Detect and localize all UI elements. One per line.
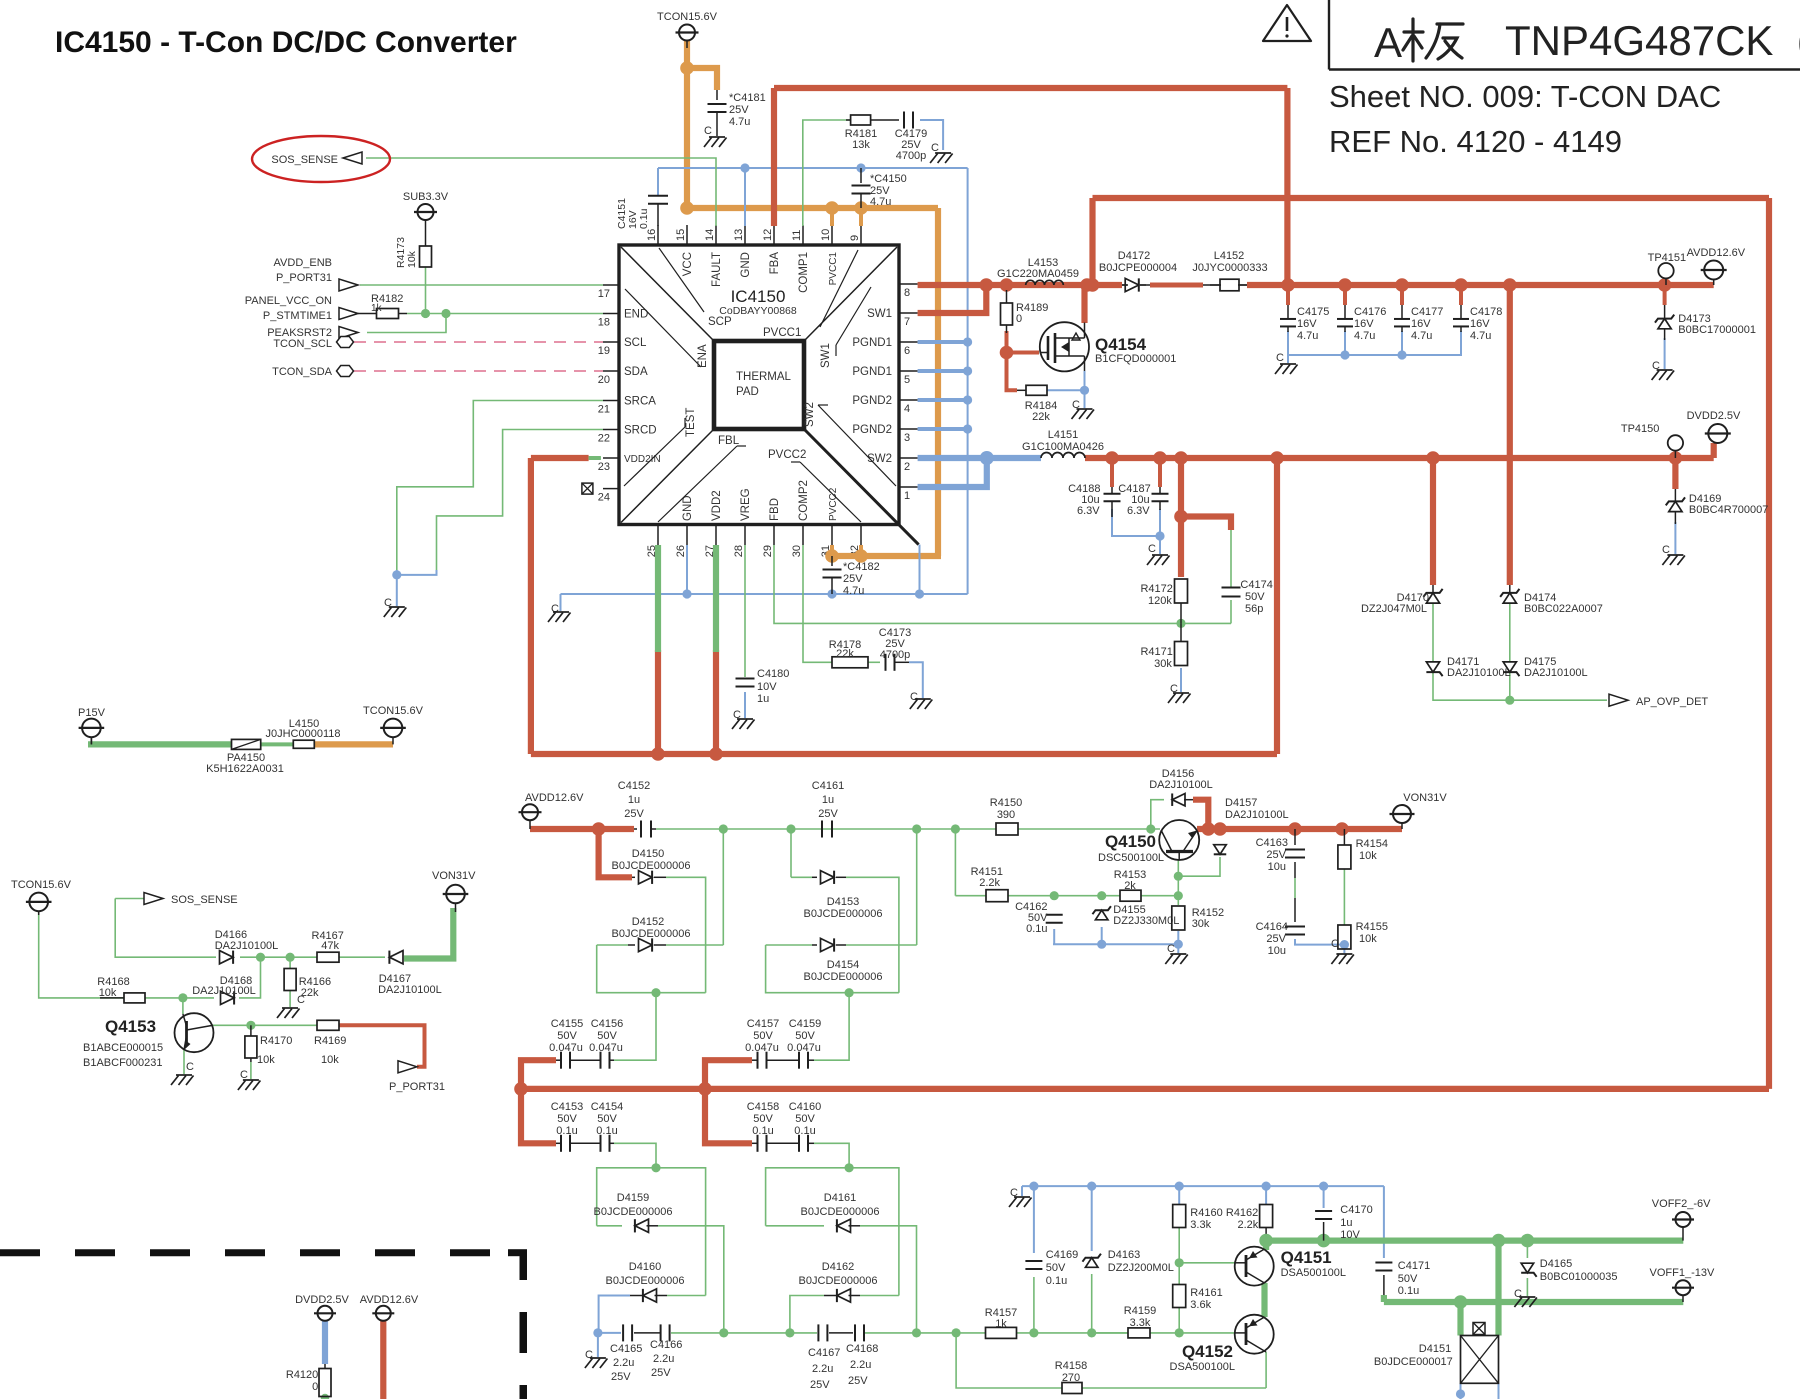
capacitor C4153	[560, 1135, 562, 1152]
svg-text:D4150: D4150	[632, 848, 664, 860]
svg-text:C4178: C4178	[1470, 306, 1502, 318]
svg-text:AVDD_ENB: AVDD_ENB	[274, 257, 332, 269]
svg-text:9: 9	[849, 235, 861, 241]
wire green pin27 VDD segment	[713, 545, 719, 652]
node green D4150 box bottom	[651, 988, 660, 997]
wire green SOS_SENSE to FAULT pin14	[366, 158, 716, 226]
wire green D4175 drop	[1509, 672, 1511, 700]
wire green Q4153 emitter to gnd	[183, 1050, 185, 1074]
svg-text:B0JDCE000017: B0JDCE000017	[1374, 1356, 1453, 1368]
svg-text:22k: 22k	[836, 648, 854, 660]
wire blue R4171 gnd tail	[1180, 668, 1182, 692]
svg-text:1k: 1k	[995, 1318, 1007, 1330]
wire green pump cap row	[598, 1332, 621, 1334]
svg-text:P_PORT31: P_PORT31	[276, 272, 332, 284]
node orange pin15	[680, 201, 694, 215]
resistor R4160	[1173, 1205, 1186, 1228]
wire green D4174 to D4175	[1509, 603, 1511, 662]
svg-text:18: 18	[598, 317, 610, 329]
wire blue gnd right vertical	[967, 168, 969, 594]
zener diode D4163	[1085, 1258, 1097, 1268]
wire orange TCON15.6V vertical from terminal	[684, 41, 690, 208]
wire blue C4171 drop	[1383, 1186, 1385, 1258]
dashed sheet border horizontal	[0, 1249, 497, 1256]
wire red SW1 pin7 jog	[918, 285, 987, 313]
node blue SW2	[980, 451, 994, 465]
node green R4173 junction	[421, 309, 430, 318]
wire orange PVCC vertical right of IC	[935, 208, 941, 556]
wire blue gnd bottom horizontal under IC	[561, 593, 968, 595]
wire red D4172 highlight segments	[1150, 283, 1203, 288]
IC corner diagonal bottom-right to GND tie	[804, 429, 919, 545]
node green D4165 top	[1521, 1234, 1535, 1248]
node green D4151 branch	[1454, 1295, 1468, 1309]
IC SCP leader and label	[659, 248, 704, 312]
IC bottom pin stubs	[657, 525, 659, 546]
wire red pump row1 feed	[521, 1060, 556, 1089]
wire blue C4164 gnd elbow	[1295, 939, 1344, 945]
svg-text:D4160: D4160	[629, 1261, 661, 1273]
svg-text:Q4150: Q4150	[1105, 832, 1156, 851]
node blue D4155 bottom	[1097, 940, 1106, 949]
IC top pin stubs	[657, 225, 659, 245]
node green D4154 riser	[912, 824, 921, 833]
wire red D4174 drop from AVDD rail	[1507, 285, 1513, 585]
svg-text:21: 21	[598, 404, 610, 416]
wire green VREG pin28 to C4180	[744, 545, 746, 677]
wire C4171 bottom lead	[1383, 1275, 1385, 1295]
node blue C4169 top	[1029, 1182, 1038, 1191]
wire blue C4162 gnd row	[1053, 943, 1178, 945]
svg-text:C4152: C4152	[618, 780, 650, 792]
svg-text:TNP4G487CK (9: TNP4G487CK (9	[1505, 17, 1800, 64]
wire red D4156 cathode to VON	[1193, 800, 1208, 829]
node green R4153 node	[1174, 891, 1183, 900]
svg-text:D4161: D4161	[824, 1192, 856, 1204]
node red R4172 C4174 junction	[1174, 510, 1188, 524]
diode D4175	[1503, 662, 1516, 672]
diode D4154	[812, 944, 817, 946]
svg-text:C4176: C4176	[1354, 306, 1386, 318]
node red C4177	[1395, 278, 1409, 292]
node blue C4176 tail	[1344, 331, 1346, 355]
node blue pin26 gnd	[682, 589, 691, 598]
testpoint TP4151	[1658, 263, 1673, 278]
svg-text:390: 390	[997, 809, 1015, 821]
svg-text:R4155: R4155	[1356, 921, 1388, 933]
svg-text:R4161: R4161	[1190, 1287, 1222, 1299]
diode D4160	[643, 1289, 657, 1302]
svg-text:D4157: D4157	[1225, 797, 1257, 809]
svg-text:D4165: D4165	[1540, 1258, 1572, 1270]
node orange pin9 stub	[854, 201, 868, 215]
node red C4175	[1281, 278, 1295, 292]
transistor Q4153 NPN	[175, 1013, 214, 1052]
svg-text:0.1u: 0.1u	[1398, 1285, 1419, 1297]
svg-text:13: 13	[733, 229, 745, 241]
wire green SOS_SENSE branch	[115, 898, 163, 900]
wire green P_STMTIME1 node to pin18	[407, 313, 603, 315]
diode D4152	[628, 944, 635, 946]
svg-text:0.1u: 0.1u	[752, 1125, 773, 1137]
wire green D4152 cathode lead	[666, 944, 723, 946]
svg-text:10k: 10k	[1359, 850, 1377, 862]
svg-text:6.3V: 6.3V	[1077, 505, 1100, 517]
svg-text:G1C100MA0426: G1C100MA0426	[1022, 441, 1104, 453]
node red feedback riser	[1086, 278, 1100, 292]
svg-text:TCON_SCL: TCON_SCL	[273, 338, 332, 350]
wire green D4162 anode lead	[860, 1295, 899, 1297]
wire orange branch to C4181	[687, 68, 717, 90]
IC PVCC2 leader and label (pin 32)	[800, 462, 861, 522]
svg-text:SW1: SW1	[867, 308, 892, 320]
wire green R4158 to Q4152 emitter	[1082, 1387, 1266, 1389]
capacitor C4150	[860, 168, 862, 183]
svg-text:COMP1: COMP1	[798, 252, 810, 293]
svg-text:VREG: VREG	[740, 488, 752, 521]
node blue C4150 top	[856, 163, 865, 172]
svg-text:C: C	[1276, 352, 1284, 364]
wire blue DVDD2.5V stub	[322, 1321, 328, 1364]
svg-text:C: C	[704, 125, 712, 137]
svg-text:PANEL_VCC_ON: PANEL_VCC_ON	[245, 295, 332, 307]
wire blue SW2 pin2 thick	[918, 455, 987, 461]
node red AVDD pump branch	[592, 822, 606, 836]
svg-text:2.2u: 2.2u	[653, 1353, 674, 1365]
wire green D4159 cathode lead	[597, 1225, 622, 1227]
node red pump rail right branch	[698, 1082, 712, 1096]
svg-text:C4170: C4170	[1340, 1204, 1372, 1216]
wire green R4159 leads	[1092, 1332, 1128, 1334]
wire orange PVCC2 horizontal at bottom	[832, 553, 941, 559]
capacitor C4173	[885, 654, 887, 671]
diode D4159	[635, 1219, 649, 1232]
svg-text:1k: 1k	[371, 303, 383, 314]
svg-text:VON31V: VON31V	[1403, 792, 1447, 804]
node green C4162 top	[1050, 891, 1059, 900]
capacitor C4164	[1285, 926, 1305, 928]
inductor L4152 bead	[1210, 284, 1220, 286]
svg-text:10u: 10u	[1268, 861, 1286, 873]
svg-text:C4166: C4166	[650, 1339, 682, 1351]
wire green COMP2 pin30 to R4178	[803, 545, 832, 662]
node orange junction at C4181 branch	[680, 61, 694, 75]
svg-text:15: 15	[675, 229, 687, 241]
wire green D4150 D4152 box	[666, 877, 706, 992]
node red pin25 tap	[651, 747, 665, 761]
resistor R4157	[986, 1327, 1017, 1338]
svg-text:DA2J10100L: DA2J10100L	[1524, 667, 1588, 679]
diode D4157	[1214, 845, 1226, 855]
diode D4166	[220, 951, 234, 964]
node green Q4150 collector	[1174, 872, 1183, 881]
svg-text:C4163: C4163	[1256, 837, 1288, 849]
svg-text:FBD: FBD	[769, 498, 781, 521]
node blue C4177 tail	[1401, 331, 1403, 355]
resistor R4171	[1180, 623, 1182, 642]
svg-text:12: 12	[762, 229, 774, 241]
node red VON emitter	[1202, 822, 1216, 836]
wire red VON31V row	[1197, 826, 1402, 832]
svg-text:END: END	[624, 309, 648, 321]
resistor R4151	[986, 890, 1008, 902]
svg-text:REF No. 4120 - 4149: REF No. 4120 - 4149	[1329, 124, 1622, 159]
node red C4188	[1105, 451, 1119, 465]
transistor Q4150	[1159, 820, 1199, 860]
svg-text:4700p: 4700p	[896, 150, 927, 162]
svg-text:C4161: C4161	[812, 780, 844, 792]
svg-text:B0BC01000035: B0BC01000035	[1540, 1271, 1618, 1283]
wire green D4161 anode jog	[860, 1226, 917, 1333]
wire R4184 left lead	[1017, 389, 1026, 391]
svg-text:D4153: D4153	[827, 896, 859, 908]
node red D4170 drop	[1426, 451, 1440, 465]
wire blue gnd top left drop to C4151	[657, 168, 659, 195]
capacitor C4179	[903, 112, 905, 129]
resistor R4162	[1260, 1205, 1273, 1228]
svg-text:R4162: R4162	[1226, 1207, 1258, 1219]
node green AP_OVP junction	[1505, 696, 1514, 705]
transistor Q4151 PNP	[1235, 1247, 1274, 1286]
wire red pin25 drop	[655, 650, 661, 754]
svg-text:SRCD: SRCD	[624, 425, 657, 437]
svg-text:16V: 16V	[1354, 318, 1374, 330]
terminal VOFF1	[1676, 1280, 1691, 1295]
svg-text:B1ABCF000231: B1ABCF000231	[83, 1057, 163, 1069]
resistor R4173	[420, 246, 432, 267]
resistor R4181	[846, 119, 851, 121]
capacitor C4169	[1025, 1260, 1042, 1262]
svg-text:C: C	[186, 1061, 194, 1073]
svg-text:AVDD12.6V: AVDD12.6V	[525, 792, 584, 804]
wire green D4154 anode lead	[766, 944, 812, 946]
wire blue D4173 gnd tail	[1664, 338, 1666, 369]
svg-text:DSC500100L: DSC500100L	[1098, 852, 1164, 864]
svg-text:TP4150: TP4150	[1621, 423, 1660, 435]
resistor R4166	[284, 969, 296, 991]
svg-text:0.1u: 0.1u	[1046, 1275, 1067, 1287]
wire green VON31V terminal stub	[455, 904, 457, 912]
resistor R4170	[245, 1036, 257, 1058]
node blue D4163 top	[1087, 1182, 1096, 1191]
IC corner diagonal top-right	[804, 247, 897, 341]
capacitor C4158	[757, 1135, 759, 1152]
wire VON31V terminal stub	[1401, 823, 1403, 829]
wire green D4153 anode riser	[790, 829, 792, 877]
zener diode D4170	[1426, 593, 1439, 603]
svg-text:50V: 50V	[597, 1030, 617, 1042]
node green D4151 riser top	[1492, 1234, 1506, 1248]
wire blue pin4 stub	[918, 398, 968, 402]
svg-text:P_STMTIME1: P_STMTIME1	[263, 310, 332, 322]
wire red D4150 feed elbow	[599, 829, 632, 877]
svg-text:1u: 1u	[822, 794, 834, 806]
terminal P15V	[82, 719, 101, 738]
svg-text:J0JYC0000333: J0JYC0000333	[1192, 262, 1267, 274]
resistor R4154	[1338, 845, 1351, 869]
svg-text:25V: 25V	[1266, 849, 1286, 861]
svg-text:25V: 25V	[843, 573, 863, 585]
resistor R4184	[1026, 385, 1047, 395]
svg-text:50V: 50V	[1398, 1273, 1418, 1285]
svg-text:50V: 50V	[795, 1113, 815, 1125]
svg-text:DA2J10100L: DA2J10100L	[192, 985, 256, 997]
inductor L4153	[1026, 280, 1064, 285]
diode D4171	[1426, 662, 1439, 672]
svg-text:B0JCDE000006: B0JCDE000006	[594, 1206, 673, 1218]
node red feedback divider branch	[1174, 451, 1188, 465]
terminal VON31V left	[446, 885, 465, 904]
svg-text:Q4153: Q4153	[105, 1017, 156, 1036]
svg-text:3.3k: 3.3k	[1190, 1219, 1211, 1231]
svg-text:DA2J10100L: DA2J10100L	[1149, 779, 1213, 791]
svg-text:C4167: C4167	[808, 1347, 840, 1359]
dashed sheet border corner	[520, 1249, 528, 1280]
warning triangle symbol	[1263, 5, 1311, 41]
wire green Q4150 collector lead	[1177, 860, 1179, 896]
IC corner diagonal bottom-left	[621, 429, 714, 523]
wire green R4120 bottom tip	[323, 1397, 327, 1399]
svg-text:IC4150 - T-Con DC/DC Converter: IC4150 - T-Con DC/DC Converter	[55, 26, 517, 59]
wire black AVDD rail gaps	[1122, 284, 1128, 286]
capacitor C4180	[736, 678, 755, 680]
node green D4159 jog bottom	[719, 1328, 728, 1337]
svg-text:DA2J10100L: DA2J10100L	[1447, 667, 1511, 679]
svg-text:0.1u: 0.1u	[638, 208, 650, 229]
wire green row4 to D4161 box	[814, 1143, 849, 1168]
capacitor C4155	[560, 1052, 562, 1069]
wire green D4159 box	[597, 1168, 706, 1296]
svg-text:PGND2: PGND2	[852, 395, 892, 407]
node green R4166 top	[286, 953, 295, 962]
svg-text:26: 26	[675, 545, 687, 557]
svg-text:5: 5	[904, 374, 910, 386]
svg-text:B0JCDE000006: B0JCDE000006	[804, 971, 883, 983]
wire green R4158 drop and row	[956, 1333, 1062, 1388]
svg-text:B0JCDE000006: B0JCDE000006	[612, 928, 691, 940]
wire red DVDD terminal elbow	[1711, 443, 1717, 458]
node green D4153 anode riser	[786, 824, 795, 833]
IC ENA leader and rotated label	[625, 289, 701, 367]
node orange pin32 stub	[854, 549, 868, 563]
svg-text:10: 10	[820, 229, 832, 241]
svg-text:25V: 25V	[729, 104, 749, 116]
wire green P_PORT31 to pin17	[360, 284, 603, 286]
wire green C4171 elbow	[1381, 1295, 1387, 1302]
wire green D4161 box	[766, 1168, 899, 1296]
svg-text:1: 1	[904, 490, 910, 502]
IC TEST leader and rotated label	[624, 427, 685, 486]
wire green SRCD pin22 route	[437, 430, 604, 571]
wire blue pin5 stub	[918, 369, 968, 373]
svg-text:4.7u: 4.7u	[1297, 330, 1318, 342]
wire blue cap bus gnd stub	[1287, 355, 1289, 363]
wire green D4160 anode lead	[667, 1295, 706, 1297]
terminal VON31V right	[1393, 805, 1411, 823]
svg-text:PVCC2: PVCC2	[828, 487, 839, 521]
wire red bottom pump rail	[521, 1086, 1769, 1092]
wire green D4154 riser	[916, 829, 918, 945]
wire blue D4169 gnd tail	[1674, 522, 1676, 554]
wire green D4167 to VON31V thick	[404, 908, 453, 959]
wire green FBD pin29 long feedback	[774, 545, 1231, 623]
wire green SRCA pin21 route to gnd	[397, 401, 603, 571]
node red L4153 out	[1080, 278, 1094, 292]
svg-text:D4151: D4151	[1419, 1343, 1451, 1355]
wire red DVDD rail A horizontal	[531, 751, 1277, 757]
svg-text:16V: 16V	[1470, 318, 1490, 330]
node red D4174 drop	[1503, 278, 1517, 292]
svg-text:VON31V: VON31V	[432, 870, 476, 882]
resistor R4159	[1128, 1328, 1150, 1338]
wire orange P15V to TCON15.6V segment	[314, 741, 393, 747]
node orange pin31 stub	[825, 549, 839, 563]
svg-text:4.7u: 4.7u	[1470, 330, 1491, 342]
node green Q4151 base node	[1175, 1258, 1184, 1267]
svg-text:FBA: FBA	[769, 252, 781, 275]
svg-text:VOFF1_-13V: VOFF1_-13V	[1650, 1267, 1715, 1279]
svg-text:0.1u: 0.1u	[556, 1125, 577, 1137]
svg-text:R4171: R4171	[1140, 646, 1172, 658]
svg-text:C4169: C4169	[1046, 1249, 1078, 1261]
svg-text:10k: 10k	[99, 987, 117, 999]
svg-text:25V: 25V	[810, 1379, 830, 1391]
svg-text:Q4151: Q4151	[1281, 1248, 1332, 1267]
svg-text:DZ2J047M0L: DZ2J047M0L	[1361, 603, 1427, 615]
capacitor C4154	[600, 1135, 602, 1152]
capacitor C4160	[798, 1135, 800, 1152]
node blue thermal pad tie	[915, 589, 924, 598]
svg-text:25V: 25V	[624, 808, 644, 820]
capacitor C4163	[1285, 849, 1305, 851]
svg-text:C4168: C4168	[846, 1343, 878, 1355]
node blue C4165 gnd	[593, 1328, 602, 1337]
wire green node1 row	[656, 828, 996, 830]
wire R4162 bottom lead	[1265, 1227, 1267, 1241]
capacitor C4182	[831, 556, 833, 566]
svg-text:10V: 10V	[757, 681, 777, 693]
node green C4169 bottom	[1029, 1328, 1038, 1337]
ellipse SOS_SENSE highlight	[252, 136, 390, 182]
svg-text:4.7u: 4.7u	[1354, 330, 1375, 342]
wire C4173 right lead	[895, 661, 910, 663]
transistor Q4154 P-MOSFET	[1040, 322, 1089, 371]
svg-text:DA2J10100L: DA2J10100L	[215, 940, 279, 952]
svg-text:B0JCPE000004: B0JCPE000004	[1099, 262, 1177, 274]
svg-text:P_PORT31: P_PORT31	[389, 1081, 445, 1093]
wire green Q4151 base	[1179, 1262, 1235, 1264]
capacitor C4151	[648, 195, 668, 197]
node green PEAKSRST2 junction	[441, 309, 450, 318]
svg-text:C: C	[1148, 543, 1156, 555]
svg-text:C4154: C4154	[591, 1101, 623, 1113]
svg-text:1u: 1u	[757, 693, 769, 705]
wire green row2 to D4159 box	[614, 1143, 656, 1168]
svg-text:SW2: SW2	[804, 402, 816, 427]
wire R4154 top lead	[1343, 829, 1345, 845]
IC FBL leader and label	[658, 446, 737, 522]
diode D4150	[632, 876, 635, 878]
node blue R4152 bottom	[1174, 940, 1183, 949]
wire green Q4153 collector row	[213, 1024, 317, 1026]
svg-text:0: 0	[312, 1381, 318, 1393]
node blue C4164 gnd	[1340, 940, 1349, 949]
capacitor C4159	[798, 1052, 800, 1069]
wire red pump row3 feed	[705, 1060, 752, 1089]
node blue C4182 bottom	[827, 589, 836, 598]
node green D4166 cathode node	[256, 953, 265, 962]
svg-text:Q4152: Q4152	[1182, 1342, 1233, 1361]
